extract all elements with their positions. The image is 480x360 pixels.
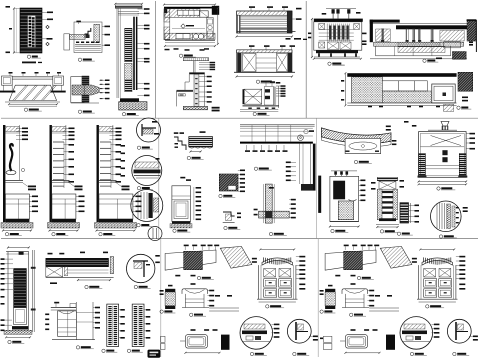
panel2 caption [127,349,143,352]
B ceiling detail [52,125,67,180]
corner detail circle (2,0) [127,254,155,282]
T-wall junction detail [259,184,290,223]
door caption [27,55,41,58]
S21 small cabinet section [160,285,176,309]
mullion wall detail [71,76,99,103]
kitchen dim labels [165,48,210,51]
panel2 labels [144,309,150,339]
plan detail labels [102,26,110,46]
wine cabinet caption [328,62,345,65]
plan detail caption [78,58,95,61]
bar counter labels [423,42,473,63]
S22 low counter [369,295,399,311]
vanity caption [76,346,94,349]
C counter + note [99,181,130,191]
hatched square detail [219,174,238,191]
cove labels [386,126,397,146]
vanity cabinet elevation [240,81,280,112]
striped block [400,203,411,223]
fireplace caption [437,187,456,190]
S21 dresser elevation [257,248,298,302]
A cabinet labels [29,196,38,213]
mullion labels [99,80,109,100]
S21 big detail circle [240,317,273,350]
detail circle (1,2) [431,201,462,232]
C ceiling detail [99,125,114,180]
T-wall caption [269,232,287,235]
hatched square caption [219,194,236,197]
L plan caption [254,167,271,170]
S21 dresser labels [252,256,305,290]
L plan corner symbol [304,129,314,133]
detail circle 3 [131,190,163,222]
cabinet dark labels [359,180,366,202]
partition wall section [177,58,209,110]
A section caption [5,233,22,236]
vanity labels [45,307,100,330]
cabinet section (1,1) [170,177,192,228]
fireplace labels [404,121,475,150]
detail circle 4 (cut) [148,227,162,241]
plan detail (top middle) [64,21,102,53]
cove ceiling elevation [321,128,391,154]
detail circle 1 caption [137,146,153,149]
S22 basin caption [350,313,367,316]
ceiling coffer detail [0,72,66,106]
S21 left small stack [161,336,166,349]
door right material labels [42,12,53,46]
C base cabinet [99,194,133,222]
bar counter section [370,19,477,59]
TV wall elevation upper [236,11,296,38]
detail circle caption (1,2) [439,235,457,238]
A wall section bar x=3 [3,125,5,222]
small section detail [223,212,241,223]
C shelf labels [111,144,122,183]
S21 low counter [209,295,239,311]
kitchen caption [179,54,196,57]
S21 small cabinet caption [160,310,175,313]
S22 small cabinet section [320,285,336,309]
striped block caption [397,232,413,235]
wine cabinet labels [308,33,367,46]
detail circle 2 [132,156,162,186]
L ceiling plan [240,125,316,191]
S21 dresser caption [266,305,285,308]
door left dimension line [6,6,21,54]
hatched square labels [238,170,245,193]
S22 small circle caption [453,352,470,355]
S21 small circle caption [293,352,310,355]
wardrobe caption [8,340,25,343]
long counter labels [457,97,472,110]
L plan left labels [286,162,296,182]
cove caption [354,160,372,163]
B base cabinet [52,194,76,222]
detail circle 1 [137,118,161,142]
S21 basin caption [190,313,207,316]
S21 cornice plan [165,245,252,277]
S22 dresser caption [426,305,445,308]
S22 big circle labels [432,324,440,338]
S22 small cabinet caption [320,310,336,313]
TV note row [286,38,308,40]
striped panel 1 [107,304,119,346]
crown molding caption [187,156,204,159]
T-wall labels [254,199,296,219]
S21 cornice caption [197,276,214,279]
partition labels [199,62,215,103]
B shelf rungs [53,142,64,188]
B cabinet labels [76,196,85,213]
vanity elevation caption [253,112,270,115]
A display vase [6,144,25,175]
corner circle caption [134,285,151,288]
B ceiling labels [63,128,75,141]
S22 cornice caption [357,276,374,279]
detail circle 2 caption [137,187,153,190]
crown molding detail [174,131,213,152]
A ceiling detail [5,125,20,180]
striped panel 2 [132,304,144,346]
S22 cushion top view [340,329,381,354]
S22 dresser elevation [417,248,458,302]
TV wall elevation lower [234,45,295,77]
long counter section [341,72,473,111]
cabinet section caption [173,229,191,232]
C floor hatch [95,223,137,232]
S21 basin section [182,283,209,307]
stair section labels [138,8,150,96]
cabinet section labels [194,187,201,220]
A counter + note [5,181,36,191]
corner circle labels [155,255,160,263]
C extra labels [121,145,126,177]
door elevation (louvered) [20,8,42,53]
C wall section bar x=96.5 [97,125,99,222]
B counter + note [52,181,83,191]
C shelf rungs [100,142,111,188]
S21 small detail circle [287,319,311,343]
TV elevation labels [249,6,302,20]
S22 basin section [342,283,369,307]
fireplace elevation [418,121,468,185]
display cabinet caption [380,230,398,233]
striped block labels [409,205,419,223]
C section caption [99,233,116,236]
panel1 labels [119,309,125,339]
S22 basin labels [368,290,375,307]
B section caption [52,233,69,236]
stair caption [122,113,139,116]
S22 black end block [386,335,395,350]
TV lower caption [256,80,275,83]
display cabinet labels [371,180,404,190]
elevation caption line2 [22,62,42,64]
small section caption [224,226,241,229]
C cabinet labels [133,196,142,213]
coffer caption [24,108,42,111]
stair/wall section [114,3,147,110]
display cabinet [376,177,399,228]
S22 small detail circle [447,319,471,343]
B floor hatch [48,223,80,232]
panel1 caption [102,349,118,352]
partition caption [212,107,220,112]
S22 left small stack [320,336,332,349]
S21 cushion top view [180,329,221,354]
S22 dresser labels [412,256,465,290]
watermark logo box [148,350,161,358]
S21 basin labels [208,290,215,307]
mirror caption [85,285,103,288]
wine cabinet elevation [311,9,363,60]
wardrobe labels [1,258,14,331]
S22 small circle labels [469,336,478,341]
B wall section bar x=49.5 [50,125,52,222]
mirror section [46,252,114,284]
vanity section [51,302,95,340]
B shelf labels [64,144,75,183]
S21 small circle labels [309,336,318,341]
wall bar fragment [318,176,321,213]
L plan bottom labels [245,145,288,152]
S21 big circle labels [272,324,280,338]
cabinet with dark door [329,171,360,228]
cabinet dark caption [331,229,349,232]
S21 big circle caption [250,352,266,355]
kitchen plan [163,4,219,47]
wardrobe section [4,247,32,339]
S21 black end block [221,335,230,350]
detail circle 3 caption [137,224,153,227]
wall edge line [31,250,36,332]
mullion caption [78,110,95,113]
A base cabinet [5,194,29,222]
S22 big detail circle [400,317,433,350]
detail circle labels (1,2) [463,207,468,212]
vanity elevation labels [276,85,286,97]
A floor hatch [1,223,33,232]
S22 big circle caption [410,352,427,355]
A ceiling labels [16,128,28,141]
C ceiling labels [110,128,122,141]
S22 cornice plan [325,245,412,277]
